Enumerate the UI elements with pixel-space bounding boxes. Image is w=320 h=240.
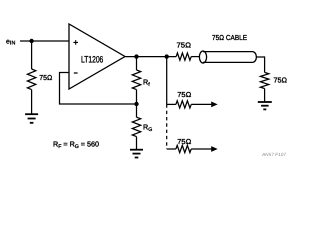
svg-text:Rf: Rf <box>143 78 150 89</box>
svg-text:75Ω: 75Ω <box>177 41 192 50</box>
svg-text:75Ω CABLE: 75Ω CABLE <box>212 33 247 42</box>
svg-text:eIN: eIN <box>6 38 16 46</box>
svg-text:75Ω: 75Ω <box>274 76 288 85</box>
svg-text:AN57 F107: AN57 F107 <box>261 152 286 157</box>
svg-text:75Ω: 75Ω <box>177 90 191 99</box>
svg-text:RF = RG = 560: RF = RG = 560 <box>53 140 99 151</box>
svg-text:LT1206: LT1206 <box>81 55 103 65</box>
svg-text:RG: RG <box>143 123 152 134</box>
svg-text:75Ω: 75Ω <box>39 73 52 82</box>
svg-text:75Ω: 75Ω <box>177 137 191 146</box>
